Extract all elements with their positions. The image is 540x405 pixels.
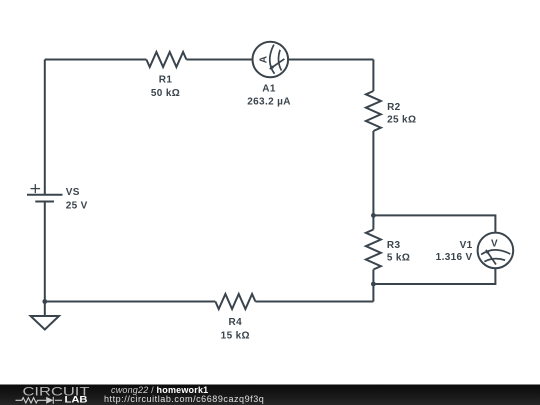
svg-text:R3: R3 <box>387 240 401 251</box>
wire bottom right horizontal <box>255 301 373 303</box>
resistor R1 <box>146 52 186 67</box>
wire voltmeter bottom to node <box>373 268 495 284</box>
CircuitLab logo diode <box>46 397 53 404</box>
wire right side down to R2 <box>372 60 374 92</box>
svg-text:V: V <box>491 238 498 249</box>
svg-text:15 kΩ: 15 kΩ <box>221 330 250 341</box>
wire left side down to VS <box>44 60 46 195</box>
ground <box>31 316 59 330</box>
svg-text:5 kΩ: 5 kΩ <box>387 253 410 264</box>
ammeter A1 <box>252 42 288 78</box>
footer bar <box>0 385 540 405</box>
resistor R2 <box>366 91 381 131</box>
svg-text:50 kΩ: 50 kΩ <box>151 88 180 99</box>
node junction dot right bottom <box>371 282 376 287</box>
CircuitLab logo squiggle <box>16 397 63 404</box>
wire R3 to bottom right corner <box>372 270 374 302</box>
wire A1 to top right corner <box>288 59 373 61</box>
wire bottom left horizontal <box>45 301 216 303</box>
wire R2 to R3 <box>372 131 374 230</box>
resistor R4 <box>215 294 255 309</box>
svg-text:VS: VS <box>66 187 80 198</box>
wire node to voltmeter top <box>373 215 495 232</box>
wire R1 to A1 <box>186 59 252 61</box>
voltmeter V1 <box>478 233 514 269</box>
svg-text:R4: R4 <box>229 317 243 328</box>
svg-text:http://circuitlab.com/c6689caz: http://circuitlab.com/c6689cazq9f3q <box>104 394 264 404</box>
svg-text:A1: A1 <box>262 84 276 95</box>
svg-text:263.2 µA: 263.2 µA <box>247 96 291 107</box>
svg-text:25 kΩ: 25 kΩ <box>387 115 416 126</box>
svg-text:LAB: LAB <box>65 395 89 405</box>
svg-text:V1: V1 <box>460 240 473 251</box>
svg-text:A: A <box>259 56 270 64</box>
svg-text:1.316 V: 1.316 V <box>436 252 473 263</box>
resistor R3 <box>366 230 381 270</box>
wire top left horizontal <box>45 59 147 61</box>
node junction dot right top <box>371 213 376 218</box>
svg-text:25 V: 25 V <box>66 201 88 212</box>
wire VS to ground <box>44 202 46 317</box>
node junction dot left <box>42 299 47 304</box>
svg-text:R2: R2 <box>387 102 401 113</box>
svg-text:R1: R1 <box>159 75 173 86</box>
battery VS <box>27 184 63 201</box>
